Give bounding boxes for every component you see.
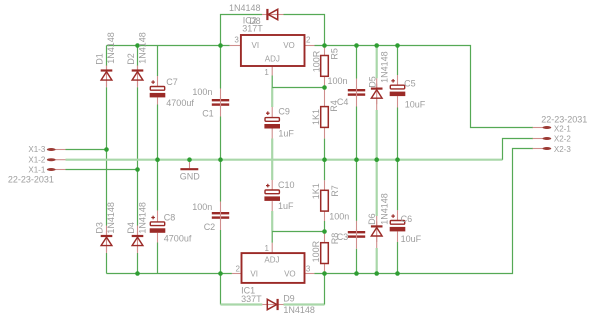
junction X1-1 node <box>135 167 140 172</box>
junction VO R8 bottom rail <box>322 271 327 276</box>
svg-text:C1: C1 <box>202 108 214 118</box>
junction C1 top rail <box>218 43 223 48</box>
connector pin X1-1 <box>47 168 66 171</box>
wire mid rail to C8 <box>157 160 159 211</box>
svg-text:1uF: 1uF <box>278 201 294 211</box>
connector pin X2-1 <box>533 126 552 129</box>
regulator IC1 337T <box>242 253 305 283</box>
svg-text:D2: D2 <box>126 53 136 65</box>
wire C1 to mid rail <box>220 117 222 160</box>
svg-text:D3: D3 <box>94 222 104 234</box>
pin C9 minus <box>271 128 273 138</box>
resistor R7 <box>321 190 329 211</box>
capacitor C4 <box>348 87 365 98</box>
svg-text:100n: 100n <box>192 87 212 97</box>
svg-text:D6: D6 <box>367 213 377 225</box>
pin R8 bottom <box>324 264 326 274</box>
pin D1 anode <box>106 80 108 87</box>
svg-text:GND: GND <box>180 171 201 181</box>
wire C4 to mid rail <box>356 107 358 160</box>
pin R7 bottom <box>324 211 326 221</box>
capacitor C6 <box>390 214 406 231</box>
wire bottom input rail <box>107 273 232 275</box>
svg-text:C9: C9 <box>278 107 290 117</box>
pin D3 anode <box>106 246 108 253</box>
wire R4 to mid rail <box>324 139 326 160</box>
junction GND mid rail <box>187 157 192 162</box>
pin C3 bottom <box>356 238 358 249</box>
pin C6 minus <box>397 231 399 242</box>
pin C8 minus <box>157 233 159 243</box>
wire R7 to ADJ- <box>324 221 326 232</box>
capacitor C10 <box>264 184 280 201</box>
regulator IC2 317T <box>241 35 305 66</box>
pin C1 top <box>220 89 222 100</box>
wire IC1 ADJ up <box>271 232 273 243</box>
junction D6 bottom rail <box>374 271 379 276</box>
wire ADJ+ row <box>272 87 324 89</box>
svg-text:X1-2: X1-2 <box>28 155 45 164</box>
svg-text:100R: 100R <box>311 240 321 262</box>
pin C9 plus <box>271 107 273 118</box>
wire C7 to mid rail <box>157 105 159 160</box>
pin D1 cathode <box>106 66 108 71</box>
svg-text:10uF: 10uF <box>401 234 422 244</box>
wire C2 to bottom rail <box>220 230 222 274</box>
diode D4 <box>132 231 144 252</box>
svg-text:2: 2 <box>306 36 311 45</box>
pin C10 minus <box>271 201 273 211</box>
wire C9 to C10 across mid rail <box>271 139 273 181</box>
svg-text:100n: 100n <box>328 76 348 86</box>
wire D8 right <box>284 15 325 46</box>
wire C8 to bottom rail <box>157 243 159 274</box>
svg-text:22-23-2031: 22-23-2031 <box>8 175 54 185</box>
svg-text:C5: C5 <box>404 78 416 88</box>
pin C4 top <box>356 79 358 90</box>
svg-text:D4: D4 <box>126 222 136 234</box>
diode D9 <box>267 299 277 310</box>
svg-text:X2-2: X2-2 <box>554 135 571 144</box>
junction C1 C2 mid rail <box>218 157 223 162</box>
wire C3 to bottom rail <box>356 249 358 274</box>
wire D9 left horizontal <box>221 303 263 305</box>
wire D1 to X1-3 <box>106 87 108 149</box>
svg-text:C7: C7 <box>166 77 178 87</box>
junction D4 bottom rail <box>135 271 140 276</box>
junction ADJ- node <box>322 229 327 234</box>
wire D6 to bottom rail <box>376 248 378 274</box>
svg-text:D1: D1 <box>94 53 104 65</box>
wire X1-1 feed <box>66 169 138 171</box>
svg-text:1K1: 1K1 <box>311 109 321 125</box>
capacitor C3 <box>348 229 365 240</box>
pin R4 bottom <box>324 127 326 138</box>
pin IC2 ADJ stub <box>271 66 273 76</box>
svg-text:X1-1: X1-1 <box>28 166 45 175</box>
wire X1-3 feed <box>66 149 107 151</box>
junction C3 bottom rail <box>354 271 359 276</box>
resistor R4 <box>321 107 329 128</box>
svg-text:C8: C8 <box>164 212 176 222</box>
pin R5 bottom <box>324 76 326 87</box>
pin C5 plus <box>397 75 399 85</box>
diode D5 <box>371 84 383 105</box>
svg-text:X2-3: X2-3 <box>554 145 571 154</box>
pin D9 cathode stub <box>278 304 284 306</box>
svg-text:100R: 100R <box>311 50 321 72</box>
wire C6 to bottom rail <box>397 242 399 274</box>
pin D9 anode stub <box>262 304 267 306</box>
wire mid GND rail <box>66 159 503 161</box>
wire D5 to mid rail <box>376 110 378 160</box>
svg-text:1: 1 <box>264 244 269 253</box>
junction C2 VI bottom rail <box>218 271 223 276</box>
wire GND to X2-2 <box>503 139 534 160</box>
pin IC2 VI stub <box>230 45 241 47</box>
svg-text:VI: VI <box>250 269 258 278</box>
wire C4 top <box>356 46 358 79</box>
wire mid rail to D6 <box>376 160 378 216</box>
pin IC1 VO stub <box>304 273 314 275</box>
pin IC1 ADJ stub <box>271 243 273 253</box>
wire D2 top <box>137 46 139 67</box>
diode D3 <box>101 231 113 252</box>
svg-text:2: 2 <box>235 265 240 274</box>
capacitor C7 <box>150 80 166 97</box>
wire D4 to bottom rail <box>137 253 139 274</box>
junction R4 R7 mid rail <box>322 157 327 162</box>
connector pin X2-3 <box>533 147 552 150</box>
svg-text:VO: VO <box>284 269 296 278</box>
svg-text:VI: VI <box>252 41 260 50</box>
wire D9 right vertical <box>324 274 326 305</box>
junction C7 C8 mid rail <box>155 157 160 162</box>
svg-text:100n: 100n <box>192 202 212 212</box>
svg-text:R5: R5 <box>330 48 340 60</box>
capacitor C1 <box>212 97 229 108</box>
svg-text:C3: C3 <box>337 232 349 242</box>
wire C5 to mid rail <box>397 108 399 160</box>
svg-text:4700uf: 4700uf <box>166 98 194 108</box>
wire X1-3 to D3 <box>106 150 108 226</box>
wire D3 to bottom rail <box>106 253 108 274</box>
svg-text:3: 3 <box>234 36 239 45</box>
pin C2 bottom <box>220 219 222 230</box>
svg-text:4700uf: 4700uf <box>164 233 192 243</box>
wire ADJ+ to C9 <box>271 88 273 108</box>
pin R5 top <box>324 46 326 56</box>
pin IC1 VI stub <box>232 273 242 275</box>
junction D5 D6 mid rail <box>374 157 379 162</box>
junction C6 bottom rail <box>395 271 400 276</box>
junction VO R5 <box>322 43 327 48</box>
pin D6 anode <box>376 236 378 248</box>
pin D4 cathode <box>137 226 139 237</box>
svg-text:1K1: 1K1 <box>311 183 321 199</box>
wire top input rail <box>107 45 230 47</box>
svg-text:1uF: 1uF <box>278 128 294 138</box>
wire D1 top <box>106 46 108 67</box>
pin IC2 VO stub <box>305 45 315 47</box>
diode D2 <box>132 66 144 87</box>
wire D2 to X1-1 <box>137 87 139 169</box>
junction X1-3 node <box>104 147 109 152</box>
pin C7 plus <box>157 76 159 87</box>
wire C5 top <box>397 46 399 76</box>
connector pin X2-2 <box>533 137 552 140</box>
junction C5 C6 mid rail <box>395 157 400 162</box>
pin C7 minus <box>157 97 159 104</box>
svg-text:ADJ: ADJ <box>264 255 279 264</box>
pin D2 cathode <box>137 66 139 71</box>
junction D2 top rail <box>135 43 140 48</box>
wire mid rail to R7 <box>324 160 326 181</box>
pin C4 bottom <box>356 96 358 106</box>
svg-text:3: 3 <box>306 265 311 274</box>
svg-text:1N4148: 1N4148 <box>137 32 147 64</box>
pin D3 cathode <box>106 226 108 237</box>
wire D8 left <box>221 15 263 46</box>
wire top output rail to X2-1 <box>315 46 534 128</box>
svg-text:D9: D9 <box>283 293 295 303</box>
pin D8 cathode stub <box>262 14 267 16</box>
wire C7 top <box>157 46 159 77</box>
ground symbol GND <box>180 160 198 170</box>
pin C2 top <box>220 202 222 213</box>
wire mid rail to C2 <box>220 160 222 202</box>
pin C1 bottom <box>220 106 222 116</box>
svg-text:337T: 337T <box>241 294 262 304</box>
pin C5 minus <box>397 96 399 107</box>
junction C4 C3 mid rail <box>354 157 359 162</box>
wire D9 right horizontal <box>284 303 325 305</box>
svg-text:1N4148: 1N4148 <box>283 305 315 315</box>
wire mid rail to C3 <box>356 160 358 221</box>
svg-text:X1-3: X1-3 <box>28 145 45 154</box>
junction ADJ+ node <box>322 85 327 90</box>
wire C1 top <box>220 46 222 89</box>
pin C6 plus <box>397 210 399 220</box>
pin D5 cathode <box>376 78 378 88</box>
pin C8 plus <box>157 211 159 222</box>
svg-text:100n: 100n <box>329 212 349 222</box>
svg-text:C2: C2 <box>204 222 216 232</box>
pin D2 anode <box>137 80 139 87</box>
pin R8 top <box>324 232 326 243</box>
svg-text:R7: R7 <box>330 185 340 197</box>
svg-text:X2-1: X2-1 <box>554 124 571 133</box>
svg-text:317T: 317T <box>242 24 263 34</box>
pin D5 anode <box>376 98 378 110</box>
wire ADJ- row <box>272 231 324 233</box>
svg-text:1N4148: 1N4148 <box>379 51 389 83</box>
pin D8 anode stub <box>277 14 284 16</box>
svg-text:VO: VO <box>283 41 295 50</box>
svg-text:ADJ: ADJ <box>265 55 280 64</box>
pin R4 top <box>324 88 326 107</box>
pin D6 cathode <box>376 216 378 226</box>
junction C4 top rail <box>354 43 359 48</box>
capacitor C5 <box>390 79 406 96</box>
connector pin X1-2 <box>47 158 66 161</box>
wire C10 to ADJ- <box>271 211 273 232</box>
pin D4 anode <box>137 246 139 253</box>
svg-text:1N4148: 1N4148 <box>379 193 389 225</box>
wire mid rail to C6 <box>397 160 399 211</box>
connector pin X1-3 <box>47 148 66 151</box>
svg-text:10uF: 10uF <box>405 99 426 109</box>
wire D5 top <box>376 46 378 79</box>
wire bottom output rail to X2-3 <box>314 149 533 274</box>
svg-text:D5: D5 <box>367 76 377 88</box>
junction D5 top rail <box>374 43 379 48</box>
pin C10 plus <box>271 180 273 190</box>
svg-text:1N4148: 1N4148 <box>106 32 116 64</box>
pin R7 top <box>324 180 326 190</box>
diode D6 <box>371 221 383 242</box>
svg-text:C10: C10 <box>278 180 295 190</box>
svg-text:1N4148: 1N4148 <box>106 202 116 234</box>
wire X1-1 to D4 <box>137 170 139 226</box>
wire IC2 ADJ down <box>271 76 273 88</box>
svg-text:1N4148: 1N4148 <box>229 3 261 13</box>
wire D9 left vertical <box>220 274 222 305</box>
resistor R8 <box>321 243 329 264</box>
svg-text:22-23-2031: 22-23-2031 <box>541 114 587 124</box>
diode D1 <box>101 66 113 87</box>
junction C5 top rail <box>395 43 400 48</box>
diode D8 <box>267 9 277 20</box>
pin C3 top <box>356 221 358 231</box>
capacitor C2 <box>212 210 229 221</box>
svg-text:C6: C6 <box>401 214 413 224</box>
svg-text:1: 1 <box>264 68 269 77</box>
capacitor C8 <box>150 216 166 233</box>
svg-text:C4: C4 <box>337 97 349 107</box>
resistor R5 <box>321 56 329 77</box>
capacitor C9 <box>264 111 280 128</box>
svg-text:1N4148: 1N4148 <box>137 202 147 234</box>
